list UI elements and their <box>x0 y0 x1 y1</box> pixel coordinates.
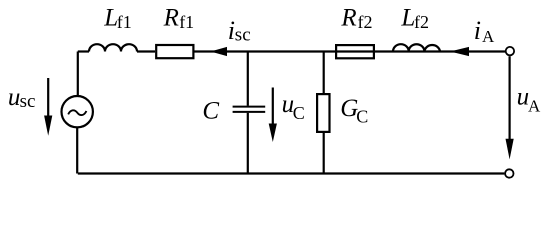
svg-text:A: A <box>528 97 541 116</box>
svg-text:R: R <box>340 5 356 32</box>
wire left branch upper <box>77 52 79 97</box>
arrowhead u C <box>269 124 277 143</box>
current arrowhead i A <box>450 47 469 56</box>
resistor Rf1 <box>156 45 193 58</box>
svg-text:sc: sc <box>20 91 36 112</box>
current arrowhead i sc <box>211 47 228 56</box>
voltage arrow u sc line <box>47 78 49 118</box>
svg-text:C: C <box>356 106 368 126</box>
wire GC branch upper <box>323 52 325 94</box>
svg-text:f2: f2 <box>414 12 429 32</box>
arrowhead u A <box>506 139 514 160</box>
terminal node top right <box>506 47 514 55</box>
arrowhead u sc <box>44 116 52 136</box>
wire Rf1 to node A (top middle) <box>195 50 506 52</box>
svg-text:i: i <box>474 16 481 45</box>
voltage arrow u C line <box>272 88 274 127</box>
voltage arrow u A line <box>509 56 511 141</box>
wire capacitor branch lower <box>247 113 249 174</box>
conductance GC box <box>317 94 329 132</box>
inductor Lf2 <box>393 44 440 51</box>
capacitor C bottom plate <box>233 111 266 113</box>
svg-text:f1: f1 <box>179 12 194 32</box>
terminal node bottom right <box>505 169 513 177</box>
wire GC branch lower <box>323 133 325 174</box>
wire Lf1 to Rf1 <box>137 50 155 52</box>
svg-text:A: A <box>482 27 495 46</box>
svg-text:f2: f2 <box>358 12 373 32</box>
sine symbol inside source <box>68 110 86 115</box>
inductor Lf1 <box>89 44 137 51</box>
svg-text:R: R <box>163 5 179 32</box>
wire bottom <box>78 172 505 174</box>
wire capacitor branch upper <box>247 52 249 106</box>
wire left branch lower <box>76 127 78 174</box>
svg-text:C: C <box>202 97 219 124</box>
svg-text:u: u <box>8 84 21 111</box>
svg-text:f1: f1 <box>117 12 132 32</box>
wire top-left horizontal segment <box>78 50 89 52</box>
svg-text:sc: sc <box>235 24 251 45</box>
svg-text:C: C <box>293 103 305 123</box>
resistor Rf2 <box>336 45 374 58</box>
capacitor C top plate <box>233 106 266 108</box>
source circle U sc <box>61 96 92 127</box>
